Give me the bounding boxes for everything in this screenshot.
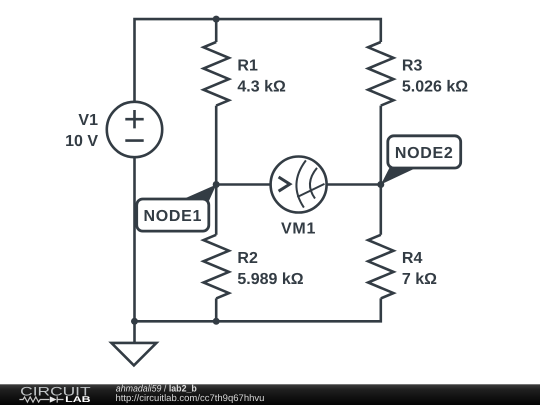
svg-text:R2: R2 xyxy=(237,250,258,267)
wire left rail bottom xyxy=(133,157,136,321)
svg-text:R3: R3 xyxy=(402,58,423,75)
CircuitLab logo zigzag and diode xyxy=(19,396,63,402)
svg-text:VM1: VM1 xyxy=(281,220,316,237)
svg-text:NODE1: NODE1 xyxy=(143,208,202,225)
junction node dot bottom xyxy=(213,318,220,325)
wire VM1 to NODE2 xyxy=(327,183,381,186)
footer bar xyxy=(0,384,540,405)
junction node dot ground xyxy=(131,318,138,325)
svg-text:R4: R4 xyxy=(402,250,423,267)
svg-text:NODE2: NODE2 xyxy=(395,145,454,162)
node NODE1 callout xyxy=(137,185,217,232)
wire R2 top lead xyxy=(215,185,218,235)
ground xyxy=(111,321,156,365)
wire middle branch R1-R2 xyxy=(215,19,218,321)
svg-text:5.026 kΩ: 5.026 kΩ xyxy=(402,78,468,95)
wire right branch R3-R4 xyxy=(379,106,382,235)
junction node dot NODE2 xyxy=(377,181,384,188)
svg-text:7 kΩ: 7 kΩ xyxy=(402,271,437,288)
resistor R3 xyxy=(368,42,468,106)
voltage source V1 xyxy=(65,102,162,157)
wire NODE1 to VM1 xyxy=(216,183,270,186)
svg-text:V1: V1 xyxy=(78,112,98,129)
voltmeter VM1 xyxy=(271,157,327,238)
node NODE2 callout xyxy=(381,136,461,185)
resistor R4 xyxy=(368,235,437,299)
wire top rail xyxy=(135,19,381,102)
resistor R2 xyxy=(204,235,304,299)
svg-text:http://circuitlab.com/cc7th9q6: http://circuitlab.com/cc7th9q67hhvu xyxy=(116,393,265,404)
junction node dot NODE1 xyxy=(213,181,220,188)
resistor R1 xyxy=(204,42,286,106)
svg-text:LAB: LAB xyxy=(65,394,90,404)
svg-text:4.3 kΩ: 4.3 kΩ xyxy=(237,78,286,95)
wire bottom rail xyxy=(135,298,381,321)
svg-text:5.989 kΩ: 5.989 kΩ xyxy=(237,271,303,288)
junction node dot top xyxy=(213,16,220,23)
svg-text:R1: R1 xyxy=(237,58,258,75)
svg-text:10 V: 10 V xyxy=(65,133,98,150)
